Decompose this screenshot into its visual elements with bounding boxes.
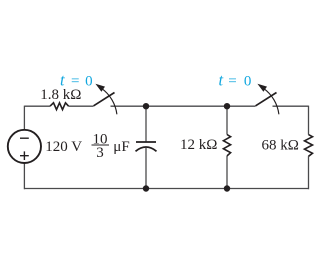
capacitor C1 10/3 uF [136,142,157,151]
node B top (junction dot x=146) [143,103,149,109]
resistor R3 68 kOhm (vertical) [305,135,313,157]
svg-text:μF: μF [113,139,129,155]
node B bottom (junction dot x=146) [143,185,149,191]
wire: right rail vertical [308,106,310,190]
wire: top-left segment from left rail to R1 [24,105,50,107]
svg-text:120 V: 120 V [45,139,82,155]
wire: bottom rail [24,188,308,190]
wire: capacitor branch vertical [145,106,147,188]
resistor R1 1.8 kOhm (horizontal) [50,103,69,110]
svg-text:t = 0: t = 0 [219,71,252,90]
voltage source V1 120 V [8,130,41,163]
switch SW1 (opening at t=0) [94,84,117,115]
svg-text:68 kΩ: 68 kΩ [262,138,299,154]
node C top (junction dot x=227) [224,103,230,109]
switch SW2 (opening at t=0) [256,84,279,115]
wire: left rail (top wire down to source, source down to bottom wire) [23,106,25,190]
svg-text:12 kΩ: 12 kΩ [180,137,217,153]
wire: switch-2 contact to top-right corner [273,105,309,107]
label 10/3 uF (fraction) [92,132,130,162]
svg-text:3: 3 [96,145,104,161]
wire: switch-1 contact to node B (x=146) to node C (x=227) to switch-2 pivot [111,105,256,107]
wire: R1 to switch-1 pivot [69,105,94,107]
wire: 12k resistor branch vertical [226,106,228,188]
node C bottom (junction dot x=227) [224,185,230,191]
resistor R2 12 kOhm (vertical) [223,135,230,156]
